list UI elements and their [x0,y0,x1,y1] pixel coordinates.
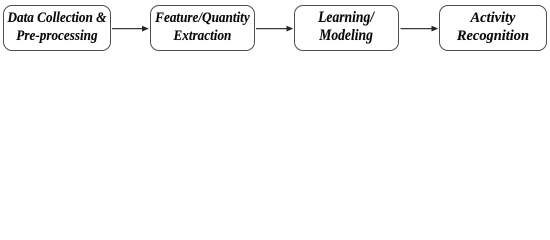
box: Feature/Quantity Extraction [150,5,256,51]
arrow 2: Feature Extraction to Learning/Modeling [256,26,293,32]
arrow 3: Learning/Modeling to Activity Recognition [401,26,439,32]
box: Activity Recognition [439,5,548,51]
box: Data Collection & Pre-processing [3,5,112,51]
box: Learning/Modeling [294,5,400,51]
arrow 1: Data Collection to Feature Extraction [112,26,149,32]
